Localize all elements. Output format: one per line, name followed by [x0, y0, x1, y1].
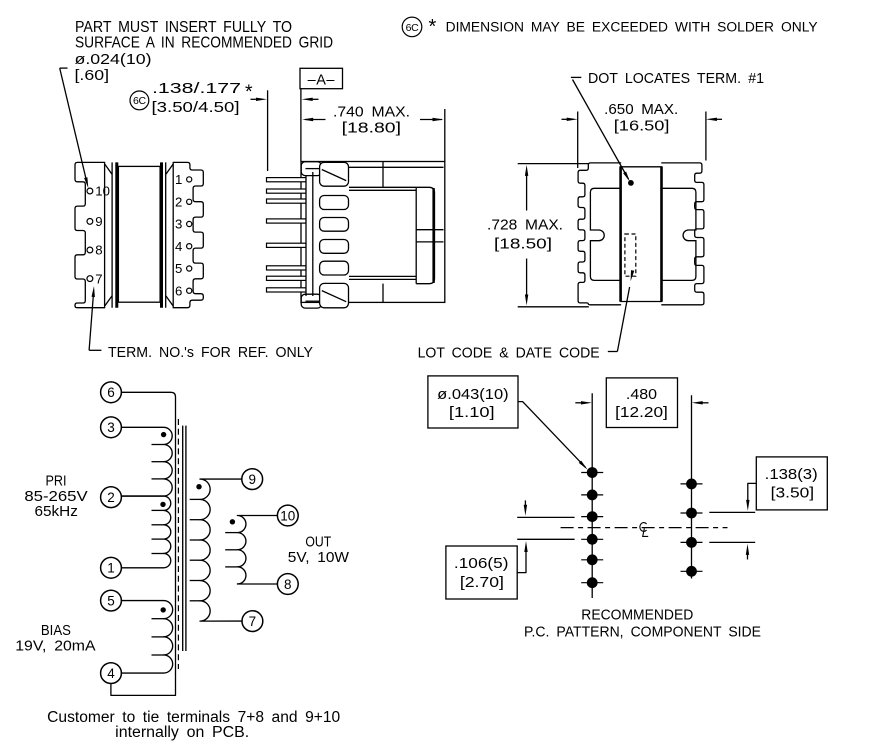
terminal 3 hole: [187, 221, 192, 226]
side view: mount foot bottom: [301, 294, 321, 308]
svg-text:internally on PCB.: internally on PCB.: [115, 724, 249, 741]
bottom view: right flange outline: [662, 163, 704, 305]
terminal 9 hole: [87, 219, 93, 225]
svg-text:5: 5: [175, 261, 182, 276]
svg-text:10: 10: [95, 184, 110, 199]
secondary winding 9-7: [200, 479, 242, 621]
side view: seam bottom: [382, 284, 384, 303]
pad left 1: [587, 467, 598, 478]
dim .106 extension lines: [517, 516, 574, 518]
schematic terminal 8: [277, 574, 298, 595]
terminal 6 hole: [187, 288, 192, 293]
leader to terminal 10: [60, 67, 68, 69]
datum A flag: [300, 68, 343, 88]
primary winding 2-1: [121, 496, 170, 568]
svg-text:6: 6: [107, 385, 115, 400]
pin 6 (side view): [267, 266, 306, 270]
polarity dot near 5: [161, 607, 166, 612]
svg-text:3: 3: [175, 217, 182, 232]
pin 3 (side view): [267, 199, 306, 203]
box: .106 pitch: [446, 546, 517, 599]
side view: seam top: [382, 162, 384, 188]
core bobbin dashed line: [177, 419, 179, 669]
bottom view: right flange inner face: [662, 188, 696, 280]
core line 1: [182, 426, 184, 651]
schematic terminal 9: [242, 469, 263, 490]
svg-text:5V, 10W: 5V, 10W: [288, 550, 349, 566]
pc pattern: left pad column line: [591, 393, 593, 598]
svg-text:2: 2: [107, 490, 115, 505]
lot/date code area (dashed): [625, 234, 636, 276]
chamfer marks left strip: [105, 164, 112, 174]
pad left 3: [587, 511, 598, 522]
flange segment 6: [320, 283, 349, 307]
dim .480 arrows (outside): [575, 402, 583, 404]
svg-text:.480: .480: [626, 387, 657, 403]
bias winding 5-4: [121, 601, 172, 674]
svg-text:LOT CODE & DATE CODE: LOT CODE & DATE CODE: [418, 346, 600, 362]
extension line body left: [300, 89, 302, 162]
top view: right flange castellated: [173, 162, 203, 307]
schematic terminal 4: [101, 663, 122, 684]
core edge right (thick): [160, 162, 163, 307]
side view: winding window bottom: [349, 275, 416, 277]
svg-text:[18.80]: [18.80]: [342, 121, 401, 137]
leader: term numbers note: [89, 349, 101, 351]
svg-text:ø.024(10): ø.024(10): [75, 51, 152, 68]
svg-text:9: 9: [248, 472, 256, 487]
leader: dot locates term 1: [571, 76, 581, 78]
svg-text:–A–: –A–: [308, 72, 336, 88]
terminal 8 hole: [87, 247, 93, 253]
svg-text:TERM. NO.'s FOR REF. ONLY: TERM. NO.'s FOR REF. ONLY: [108, 345, 313, 361]
schematic terminal 1: [101, 557, 122, 578]
polarity dot near 9: [196, 484, 201, 489]
svg-text:[12.20]: [12.20]: [615, 405, 668, 421]
polarity dot near 10: [230, 519, 235, 524]
svg-text:P.C. PATTERN, COMPONENT SIDE: P.C. PATTERN, COMPONENT SIDE: [524, 625, 761, 641]
terminal 10 hole: [87, 188, 93, 194]
svg-text:[3.50/4.50]: [3.50/4.50]: [152, 100, 240, 116]
top view: left flange edge lines: [104, 162, 106, 307]
svg-text:OUT: OUT: [305, 535, 331, 551]
side view: body outline: [301, 162, 445, 303]
svg-text:RECOMMENDED: RECOMMENDED: [581, 607, 693, 623]
leader: lot & date code: [608, 351, 618, 353]
terminal 4 hole: [187, 244, 192, 249]
svg-text:4: 4: [107, 666, 115, 681]
terminal 5 hole: [187, 266, 192, 271]
flange segment 5: [320, 261, 349, 275]
svg-text:7: 7: [249, 614, 257, 629]
terminal 1 hole: [187, 177, 192, 182]
svg-text:5: 5: [107, 593, 115, 608]
side view: winding window top: [349, 186, 416, 188]
svg-text:.740 MAX.: .740 MAX.: [333, 105, 410, 121]
svg-text:*: *: [429, 16, 437, 38]
flange segment 1: [320, 162, 349, 186]
svg-text:[2.70]: [2.70]: [460, 575, 504, 591]
flange segment 4: [320, 240, 349, 254]
top view: right flange edge lines: [165, 162, 167, 307]
extension line body right: [444, 109, 446, 162]
svg-text:2: 2: [175, 195, 182, 210]
pin 4 (side view): [267, 219, 306, 223]
top view: left flange castellated: [75, 162, 105, 307]
flange segment 2: [320, 196, 349, 210]
svg-text:SURFACE A IN RECOMMENDED GRID: SURFACE A IN RECOMMENDED GRID: [75, 35, 333, 52]
svg-text:65kHz: 65kHz: [35, 504, 78, 520]
side view: core leg band: [415, 187, 417, 283]
pad right 2: [686, 508, 697, 519]
svg-text:[1.10]: [1.10]: [449, 405, 495, 421]
side view: mount foot top: [301, 162, 321, 176]
pin 7 (side view): [267, 276, 306, 280]
schematic terminal 7: [242, 611, 263, 632]
centerline symbol: [640, 523, 648, 537]
flange segment 3: [320, 218, 349, 232]
svg-text:.106(5): .106(5): [454, 556, 509, 572]
box: hole dia .043: [428, 376, 518, 428]
chamfer marks right strip: [166, 164, 173, 174]
extension lines .650: [577, 112, 579, 169]
core line 2: [185, 426, 187, 651]
svg-text:[16.50]: [16.50]: [614, 119, 670, 135]
pad left 4: [587, 534, 598, 545]
balloon 6C right: [402, 17, 422, 37]
svg-text:3: 3: [107, 420, 115, 435]
dim .138 extension lines: [709, 511, 755, 513]
core center rectangle: [118, 166, 160, 302]
svg-text:6C: 6C: [133, 95, 147, 107]
pin 1 (side view): [267, 178, 306, 182]
bottom view: core band: [620, 166, 662, 168]
wire terminal 6 to core shield: [111, 392, 176, 695]
pad left 2: [587, 490, 598, 501]
svg-text:[3.50]: [3.50]: [771, 486, 814, 502]
primary winding 3-2: [121, 427, 172, 496]
svg-text:9: 9: [95, 214, 102, 229]
svg-text:10: 10: [280, 508, 295, 523]
schematic terminal 2: [101, 487, 122, 508]
pad right 1: [686, 479, 697, 490]
box: .138 pitch: [756, 457, 827, 510]
pad left 6: [587, 577, 598, 588]
dot locates terminal 1: [628, 180, 634, 186]
svg-text:PRI: PRI: [46, 474, 67, 490]
pad left 5: [587, 554, 598, 565]
svg-text:[.60]: [.60]: [75, 67, 110, 84]
core edge left (thick): [115, 162, 118, 307]
svg-text:6C: 6C: [406, 22, 420, 34]
svg-text:PART MUST INSERT FULLY TO: PART MUST INSERT FULLY TO: [75, 19, 292, 36]
svg-text:19V, 20mA: 19V, 20mA: [15, 639, 96, 655]
leader dia .043 to pad: [518, 402, 585, 468]
polarity dot near 3: [161, 432, 166, 437]
dim line .728: [526, 172, 528, 211]
leader .106: [517, 547, 526, 573]
svg-text:1: 1: [175, 172, 182, 187]
svg-text:1: 1: [107, 561, 115, 576]
balloon 6C left: [130, 91, 149, 110]
pin 8 (side view): [267, 288, 306, 292]
pad right 3: [686, 537, 697, 548]
dim arrows .138/.177 (outside): [251, 98, 259, 100]
svg-text:.138(3): .138(3): [765, 467, 818, 483]
svg-text:6: 6: [175, 283, 182, 298]
terminal 2 hole: [187, 199, 192, 204]
svg-text:ø.043(10): ø.043(10): [437, 387, 508, 403]
schematic terminal 3: [101, 417, 122, 438]
polarity dot near 2: [160, 502, 165, 507]
svg-text:DOT LOCATES TERM. #1: DOT LOCATES TERM. #1: [588, 71, 764, 87]
extension lines .728: [518, 163, 589, 165]
pattern centerline (dashed): [561, 527, 728, 529]
svg-text:.650 MAX.: .650 MAX.: [604, 102, 678, 118]
terminal 7 hole: [87, 276, 93, 282]
box: .480 spacing: [606, 378, 677, 428]
bottom view: left flange outline: [578, 163, 621, 305]
schematic terminal 10: [277, 505, 298, 526]
svg-text:7: 7: [95, 271, 102, 286]
svg-text:.728 MAX.: .728 MAX.: [487, 218, 563, 234]
schematic terminal 5: [101, 590, 122, 611]
leader .138: [748, 483, 757, 505]
svg-text:.138/.177: .138/.177: [152, 81, 241, 97]
svg-text:8: 8: [284, 577, 292, 592]
svg-text:[18.50]: [18.50]: [494, 236, 552, 252]
svg-text:4: 4: [175, 239, 182, 254]
pad right 4: [686, 566, 697, 577]
pc pattern: right pad column line: [691, 395, 693, 578]
side view: core leg: [416, 187, 434, 283]
svg-text:85-265V: 85-265V: [24, 489, 88, 505]
secondary winding 10-8: [237, 516, 277, 585]
svg-text:BIAS: BIAS: [41, 623, 71, 639]
side view: bobbin tube lines: [305, 176, 307, 296]
svg-text:8: 8: [95, 243, 102, 258]
pin 5 (side view): [267, 243, 306, 247]
pin 2 (side view): [267, 189, 306, 193]
side view: body inner top line: [349, 166, 444, 168]
schematic terminal 6: [101, 382, 122, 403]
bottom view: left flange inner face: [590, 188, 620, 280]
extension line pin tips: [267, 90, 269, 171]
svg-text:DIMENSION MAY BE EXCEEDED WITH: DIMENSION MAY BE EXCEEDED WITH SOLDER ON…: [446, 19, 819, 35]
